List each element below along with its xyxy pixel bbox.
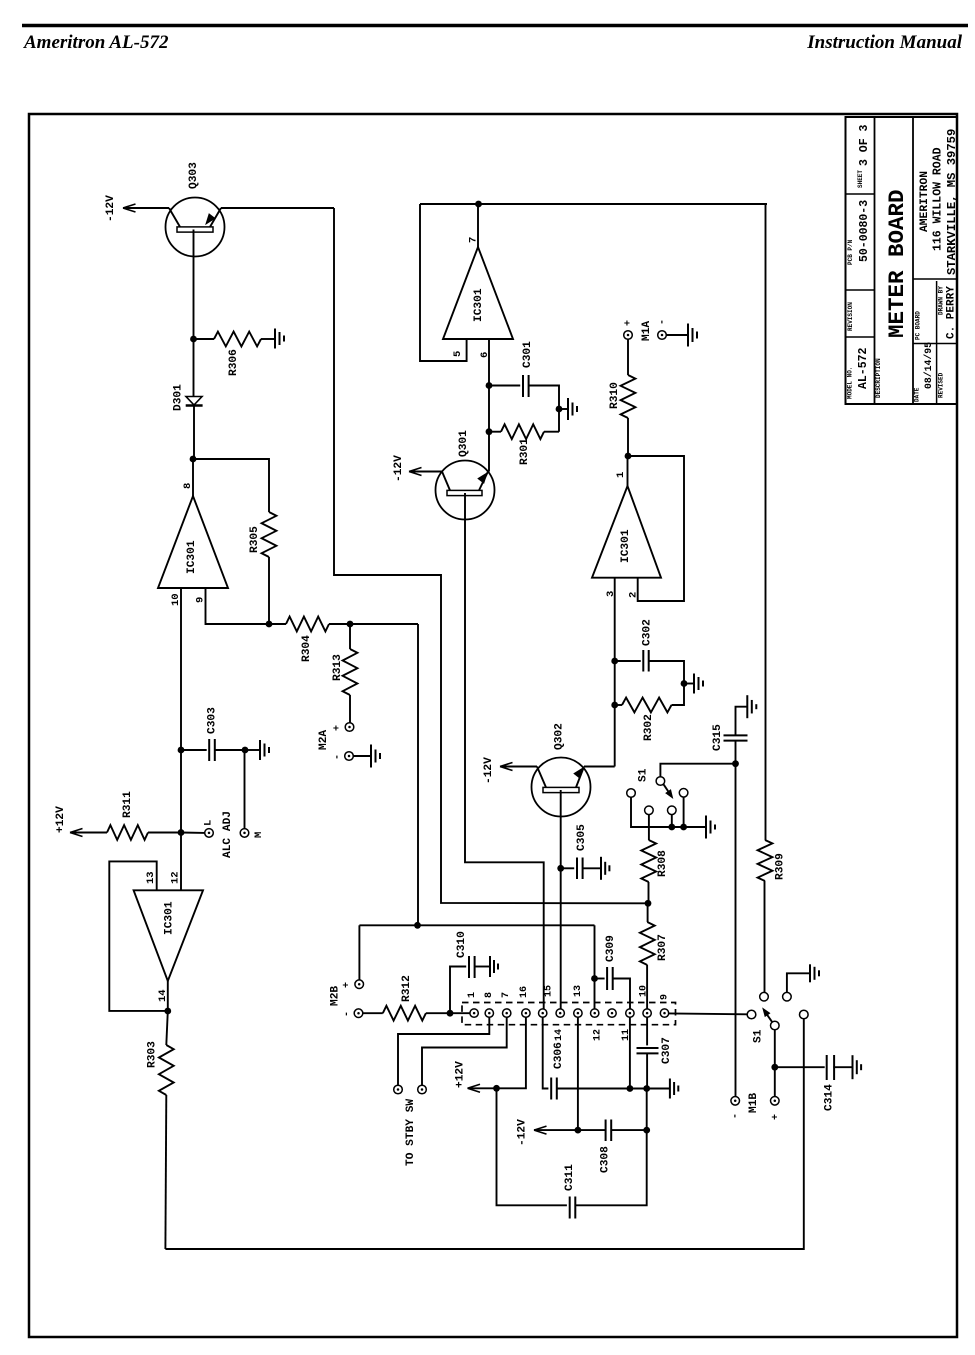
switch S1 top pole bbox=[656, 777, 665, 786]
resistor R306 bbox=[214, 332, 261, 347]
node pin1 junction bbox=[625, 453, 632, 460]
wire S1 throw R down bbox=[165, 1019, 803, 1249]
wire pin8 to SW bbox=[398, 1017, 489, 1085]
svg-text:S1: S1 bbox=[638, 768, 650, 782]
wire R311 to node bbox=[148, 832, 181, 834]
S1 top lever arrow bbox=[664, 784, 672, 795]
wire C303 left bbox=[181, 749, 207, 751]
node rail junction bbox=[414, 922, 421, 929]
wire R301 left bbox=[489, 431, 501, 433]
svg-text:15: 15 bbox=[544, 985, 555, 997]
wire node to L terminal bbox=[181, 832, 205, 834]
wire pin14 stub bbox=[167, 981, 169, 1011]
svg-text:R309: R309 bbox=[775, 853, 787, 880]
resistor R308 bbox=[641, 840, 656, 882]
connector pin circle 2 bbox=[485, 1009, 493, 1017]
svg-text:C314: C314 bbox=[824, 1084, 836, 1111]
svg-text:IC301: IC301 bbox=[620, 529, 632, 563]
terminal M1B minus bbox=[731, 1097, 740, 1106]
svg-text:9: 9 bbox=[194, 597, 206, 603]
capacitor C303 bbox=[208, 739, 210, 761]
wire C311 right bbox=[575, 1130, 646, 1205]
terminal M1A minus bbox=[658, 331, 667, 340]
wire Q302 collector bbox=[584, 766, 615, 768]
wire R313 node right bbox=[350, 623, 418, 625]
capacitor C305 bbox=[576, 858, 578, 880]
wire R302 left bbox=[615, 704, 622, 706]
node R308-R307 junction bbox=[645, 900, 652, 907]
terminal SW B bbox=[418, 1085, 427, 1094]
svg-text:7: 7 bbox=[501, 992, 512, 998]
svg-text:14: 14 bbox=[554, 1029, 565, 1041]
svg-text:AMERITRON: AMERITRON bbox=[919, 171, 931, 232]
wire R309 bottom bbox=[764, 881, 766, 992]
S1 bottom lever arrow bbox=[765, 1011, 773, 1022]
resistor R307 bbox=[640, 922, 655, 965]
wire throw RA stub bbox=[683, 797, 685, 827]
node R305-pin9 junction bbox=[266, 621, 273, 628]
ground C301 bbox=[567, 398, 569, 420]
wire C315 node to M1B bbox=[735, 764, 737, 1096]
svg-text:R301: R301 bbox=[519, 438, 531, 465]
resistor R310 bbox=[621, 375, 636, 418]
svg-text:R308: R308 bbox=[657, 850, 669, 877]
wire C314 to gnd bbox=[833, 1066, 852, 1068]
op-amp IC301 pins 12-13-14 bbox=[134, 890, 203, 981]
wire C310 branch bbox=[450, 967, 466, 1014]
wire pin13 down bbox=[577, 1017, 579, 1130]
terminal M1A plus bbox=[624, 331, 633, 340]
connector pin circle 9 bbox=[608, 1009, 616, 1017]
svg-text:R312: R312 bbox=[401, 975, 413, 1002]
svg-text:08/14/95: 08/14/95 bbox=[923, 342, 934, 389]
svg-text:-12V: -12V bbox=[517, 1119, 529, 1146]
Q303 emitter arrow bbox=[206, 214, 215, 224]
wire op3 feedback bbox=[628, 456, 684, 601]
wire bus to R309 bbox=[765, 204, 767, 840]
svg-text:IC301: IC301 bbox=[473, 288, 485, 322]
wire pin7 stub bbox=[477, 204, 479, 247]
resistor R312 bbox=[383, 1006, 426, 1021]
op-amp IC301 pins 5-6-7 bbox=[443, 247, 513, 339]
svg-text:10: 10 bbox=[170, 593, 182, 606]
wire C308 right bbox=[611, 1129, 647, 1131]
resistor R304 bbox=[286, 617, 329, 632]
wire C302 gnd stem bbox=[684, 683, 694, 685]
switch S1 top throw LA bbox=[627, 789, 636, 798]
svg-text:R311: R311 bbox=[122, 791, 134, 818]
wire +12V down to C311 bbox=[497, 1088, 567, 1205]
wire pin9 bbox=[206, 588, 270, 624]
svg-text:S1: S1 bbox=[753, 1029, 765, 1043]
svg-text:Ameritron AL-572: Ameritron AL-572 bbox=[23, 32, 169, 53]
wire R305 bottom bbox=[268, 557, 270, 624]
ground M2A bbox=[370, 745, 372, 768]
wire R301 right bbox=[544, 431, 559, 433]
node R301 left junction bbox=[486, 428, 493, 435]
terminal SW A bbox=[394, 1085, 403, 1094]
wire -12V to Q302 bbox=[500, 766, 537, 768]
node M1B plus junction bbox=[771, 1064, 778, 1071]
connector pin circle 5 bbox=[539, 1009, 547, 1017]
wire Q303 collector bus bbox=[334, 208, 648, 903]
svg-text:16: 16 bbox=[519, 986, 530, 998]
wire +12V to R311 bbox=[70, 832, 107, 834]
wire pin10 long bbox=[180, 588, 182, 890]
capacitor C314 bbox=[826, 1055, 828, 1080]
svg-text:C315: C315 bbox=[712, 724, 724, 751]
wire C302 left bbox=[615, 660, 641, 662]
transistor Q302 bbox=[532, 758, 591, 817]
wire C311-gnd vertical bbox=[646, 1089, 648, 1131]
transistor Q303 bbox=[166, 198, 225, 257]
capacitor C302 bbox=[642, 650, 644, 672]
op-amp IC301 pins 1-2-3 bbox=[592, 486, 661, 578]
terminal M2A plus bbox=[345, 723, 354, 732]
ground R306 bbox=[274, 329, 276, 349]
resistor R311 bbox=[107, 825, 148, 840]
power +12V arrow bottom bbox=[468, 1084, 481, 1092]
svg-text:R305: R305 bbox=[249, 526, 261, 553]
svg-text:+: + bbox=[771, 1114, 782, 1120]
wire Q303 base down bbox=[193, 230, 195, 340]
svg-text:9: 9 bbox=[660, 994, 671, 1000]
terminal M2B plus bbox=[355, 980, 364, 989]
resistor R303 bbox=[159, 1045, 174, 1095]
capacitor C306 bbox=[550, 1078, 552, 1100]
ground rail symbol bbox=[669, 1079, 671, 1099]
svg-text:M1A: M1A bbox=[641, 321, 653, 341]
wire M1A to R310 bbox=[627, 339, 629, 375]
header rule bbox=[22, 24, 968, 27]
capacitor C308 bbox=[605, 1120, 607, 1142]
svg-text:M1B: M1B bbox=[748, 1093, 760, 1113]
connector dashed outline bbox=[462, 1003, 676, 1025]
wire C310 gnd stem bbox=[475, 966, 490, 968]
wire op1 top rail bbox=[420, 203, 767, 205]
wire R304 to R313 node bbox=[329, 623, 350, 625]
wire R312 to node bbox=[426, 1012, 450, 1014]
svg-text:-: - bbox=[342, 1011, 353, 1017]
wire Q301 base down bbox=[465, 493, 544, 1009]
svg-text:Q303: Q303 bbox=[188, 162, 200, 189]
connector pin circle 7 bbox=[574, 1009, 582, 1017]
switch S1 top throw RB bbox=[668, 806, 677, 815]
svg-text:116 WILLOW ROAD: 116 WILLOW ROAD bbox=[931, 147, 944, 251]
switch S1 bottom throw R bbox=[800, 1010, 809, 1019]
capacitor C310 bbox=[468, 956, 470, 978]
wire pin9 to S1 bbox=[669, 1012, 747, 1015]
wire pin15 to C306 bbox=[543, 1017, 549, 1088]
node C301 ground junction bbox=[556, 406, 563, 413]
svg-text:+12V: +12V bbox=[55, 806, 67, 833]
svg-text:R303: R303 bbox=[147, 1041, 159, 1068]
wire down to M2B rail bbox=[417, 624, 419, 925]
svg-text:C308: C308 bbox=[600, 1146, 612, 1173]
svg-text:C305: C305 bbox=[576, 824, 588, 851]
wire R303 to bottom bus bbox=[164, 1095, 167, 1249]
switch S1 top throw LB bbox=[645, 806, 654, 815]
ground C315 bbox=[746, 695, 748, 718]
switch S1 bottom throw TL bbox=[760, 992, 769, 1001]
Q301 collector arrow bbox=[478, 473, 487, 483]
terminal M1B plus bbox=[771, 1097, 780, 1106]
wire R313 top bbox=[349, 624, 351, 649]
wire pin8 stub bbox=[192, 459, 194, 496]
terminal L bbox=[205, 829, 214, 838]
node +12V junction bbox=[493, 1085, 500, 1092]
wire M2A minus to ground bbox=[353, 755, 371, 757]
connector pin circle 12 bbox=[660, 1009, 668, 1017]
wire to R304 bbox=[269, 623, 286, 625]
svg-text:+12V: +12V bbox=[455, 1061, 467, 1088]
switch S1 top throw RA bbox=[679, 789, 688, 798]
svg-text:Q302: Q302 bbox=[554, 723, 566, 750]
svg-text:R313: R313 bbox=[332, 654, 344, 681]
ground S1 bottom bbox=[809, 964, 811, 982]
wire S1 pole down bbox=[774, 1030, 776, 1097]
svg-text:PCB P/N: PCB P/N bbox=[847, 239, 854, 265]
resistor R305 bbox=[262, 512, 277, 557]
svg-text:C311: C311 bbox=[564, 1164, 576, 1191]
wire to R306 bbox=[194, 338, 215, 340]
wire R308 bottom bbox=[648, 882, 650, 903]
wire ground rail bbox=[557, 1088, 670, 1090]
power -12V arrow Q303 bbox=[123, 204, 136, 212]
svg-text:R304: R304 bbox=[301, 635, 313, 662]
node C309 junction bbox=[591, 975, 598, 982]
wire C315 bottom bbox=[735, 741, 737, 764]
wire R307 top bbox=[647, 903, 649, 922]
resistor R302 bbox=[622, 698, 672, 713]
svg-text:ALC ADJ: ALC ADJ bbox=[222, 811, 234, 858]
title block grid bbox=[846, 117, 958, 404]
wire M1B node to C314 bbox=[775, 1066, 825, 1068]
wire R305 top branch bbox=[193, 459, 269, 512]
node throw RB junction bbox=[668, 824, 675, 831]
svg-text:R310: R310 bbox=[609, 382, 621, 409]
svg-text:STARKVILLE, MS 39759: STARKVILLE, MS 39759 bbox=[945, 129, 959, 275]
node R302 left junction bbox=[611, 702, 618, 709]
svg-text:13: 13 bbox=[145, 871, 157, 884]
wire C315 top to gnd bbox=[736, 707, 748, 736]
power -12V arrow bottom bbox=[534, 1126, 547, 1134]
wire C305 gnd stem bbox=[583, 867, 601, 869]
wire C307 to gnd rail bbox=[646, 1053, 648, 1088]
svg-text:8: 8 bbox=[182, 483, 194, 489]
node pin11 gnd junction bbox=[627, 1085, 634, 1092]
svg-text:Q301: Q301 bbox=[458, 430, 470, 457]
svg-text:M: M bbox=[253, 832, 265, 838]
svg-text:50-0080-3: 50-0080-3 bbox=[858, 200, 871, 262]
svg-text:L: L bbox=[202, 820, 214, 826]
node C302 left junction bbox=[611, 658, 618, 665]
ground C302 bbox=[693, 674, 695, 694]
capacitor C301 bbox=[522, 375, 524, 397]
wire pin3 down bbox=[614, 578, 616, 767]
wire pin16 to +12V bbox=[470, 1017, 526, 1088]
node R311 junction bbox=[178, 829, 185, 836]
wire M2B top rail bbox=[359, 924, 594, 926]
wire R306 junction to D301 bbox=[193, 339, 195, 397]
wire M2B minus to R312 bbox=[363, 1012, 383, 1014]
svg-text:IC301: IC301 bbox=[164, 901, 176, 935]
capacitor C311 bbox=[569, 1197, 571, 1219]
node R304-R313 junction bbox=[347, 621, 354, 628]
svg-text:C301: C301 bbox=[522, 341, 534, 368]
svg-text:C309: C309 bbox=[605, 935, 617, 962]
wire pin7 to SW bbox=[422, 1017, 507, 1085]
wire D301 to pin8 node bbox=[193, 406, 195, 460]
svg-text:M2A: M2A bbox=[318, 730, 330, 750]
node C303 left junction bbox=[178, 747, 185, 754]
wire C309 node to pin12 bbox=[594, 979, 596, 1009]
svg-text:C310: C310 bbox=[456, 931, 468, 958]
wire -12V to Q303 bbox=[123, 207, 169, 209]
connector pin circle 10 bbox=[626, 1009, 634, 1017]
wire C309 right bbox=[613, 979, 630, 1009]
wire R310 to pin1 bbox=[627, 418, 629, 456]
node C305 junction bbox=[557, 865, 564, 872]
power -12V arrow Q302 bbox=[500, 763, 513, 771]
svg-text:5: 5 bbox=[452, 351, 464, 357]
resistor R313 bbox=[343, 649, 358, 695]
node R312 junction bbox=[447, 1010, 454, 1017]
wire C302 right bbox=[649, 661, 684, 684]
node pin13 -12V junction bbox=[575, 1127, 582, 1134]
svg-text:C302: C302 bbox=[642, 619, 654, 646]
wire C303 gnd stem bbox=[245, 749, 260, 751]
svg-text:+: + bbox=[333, 725, 344, 731]
resistor R309 bbox=[758, 840, 773, 881]
ground C310 bbox=[489, 956, 491, 977]
wire R302 right bbox=[672, 684, 685, 706]
svg-text:IC301: IC301 bbox=[186, 540, 198, 574]
wire M2B plus drop bbox=[358, 925, 360, 980]
svg-text:R306: R306 bbox=[228, 349, 240, 376]
ground C305 bbox=[600, 857, 602, 880]
svg-text:1: 1 bbox=[615, 472, 627, 478]
wire pin10 to C307 bbox=[646, 1017, 648, 1045]
svg-text:10: 10 bbox=[639, 985, 650, 997]
svg-text:D301: D301 bbox=[173, 384, 185, 411]
connector pin circle 6 bbox=[556, 1009, 564, 1017]
svg-text:DRAWN BY: DRAWN BY bbox=[938, 286, 945, 315]
wire C301 right bbox=[529, 386, 559, 432]
node throw RA junction bbox=[680, 824, 687, 831]
terminal M bbox=[240, 829, 249, 838]
ground S1 top bbox=[705, 816, 707, 839]
connector pin circle 3 bbox=[503, 1009, 511, 1017]
wire -12V rail left bbox=[534, 1129, 578, 1131]
op-amp IC301 pins 8-9-10 bbox=[158, 496, 228, 588]
svg-text:-12V: -12V bbox=[483, 757, 495, 784]
wire R303 top bbox=[166, 1011, 168, 1045]
ground C303 bbox=[259, 740, 261, 760]
node pin8 junction bbox=[190, 456, 197, 463]
wire C303 right bbox=[215, 749, 245, 751]
svg-text:8: 8 bbox=[484, 992, 495, 998]
capacitor C307 bbox=[637, 1047, 659, 1049]
svg-text:REVISED: REVISED bbox=[938, 372, 945, 398]
connector pin circle 1 bbox=[470, 1009, 478, 1017]
svg-text:C. PERRY: C. PERRY bbox=[945, 286, 957, 339]
switch S1 bottom throw TR bbox=[783, 992, 792, 1001]
svg-text:MODEL NO.: MODEL NO. bbox=[847, 367, 854, 399]
wire throw TR to gnd bbox=[787, 973, 810, 992]
svg-text:Instruction Manual: Instruction Manual bbox=[806, 32, 962, 53]
connector pin circle 4 bbox=[522, 1009, 530, 1017]
svg-text:-: - bbox=[333, 754, 344, 760]
resistor R301 bbox=[501, 424, 544, 439]
wire C305 left bbox=[561, 867, 575, 869]
connector pin circle 11 bbox=[643, 1009, 651, 1017]
wire op1 feedback left bbox=[420, 204, 467, 361]
wire pin11 down bbox=[629, 1017, 631, 1088]
svg-text:+: + bbox=[624, 320, 635, 326]
Q302 collector arrow bbox=[574, 768, 583, 778]
svg-text:-: - bbox=[731, 1113, 742, 1119]
wire throw LA down bbox=[631, 797, 706, 827]
svg-text:R302: R302 bbox=[643, 714, 655, 741]
power -12V arrow Q301 bbox=[409, 468, 422, 476]
svg-text:C303: C303 bbox=[207, 707, 219, 734]
node R306 junction bbox=[190, 336, 197, 343]
svg-text:-12V: -12V bbox=[393, 455, 405, 482]
switch S1 bottom pole L bbox=[747, 1010, 756, 1019]
svg-text:DATE: DATE bbox=[914, 387, 921, 402]
svg-text:C306: C306 bbox=[553, 1042, 565, 1069]
capacitor C315 bbox=[724, 734, 748, 736]
wire node to pin1 bbox=[450, 1012, 470, 1014]
transistor Q301 bbox=[436, 461, 495, 520]
svg-text:C307: C307 bbox=[661, 1037, 673, 1064]
diode D301 bbox=[186, 397, 202, 406]
svg-text:TO STBY SW: TO STBY SW bbox=[405, 1099, 417, 1166]
wire -12V to Q301 bbox=[409, 471, 442, 473]
wire -12V rail to C308 bbox=[578, 1129, 606, 1131]
wire R306 to ground bbox=[261, 338, 275, 340]
wire C303 node to M terminal bbox=[244, 750, 246, 829]
svg-text:12: 12 bbox=[169, 871, 181, 884]
node C307 gnd junction bbox=[643, 1085, 650, 1092]
wire pin1 stub bbox=[627, 456, 629, 486]
node pin7 junction bbox=[475, 201, 482, 208]
svg-text:R307: R307 bbox=[657, 934, 669, 961]
svg-text:1: 1 bbox=[467, 992, 478, 998]
wire op4 feedback bbox=[109, 861, 168, 1011]
wire C301 gnd stem bbox=[559, 408, 568, 410]
terminal M2A minus bbox=[345, 752, 354, 761]
svg-text:M2B: M2B bbox=[330, 986, 342, 1006]
svg-text:-12V: -12V bbox=[105, 195, 117, 222]
node pin14 junction bbox=[164, 1008, 171, 1015]
svg-text:METER BOARD: METER BOARD bbox=[884, 189, 910, 338]
node C303 right junction bbox=[242, 747, 249, 754]
svg-text:-: - bbox=[658, 319, 669, 325]
wire throw RB stub bbox=[671, 815, 673, 827]
wire Q302 base down bbox=[560, 790, 562, 1009]
connector pin circle 8 bbox=[591, 1009, 599, 1017]
wire S1 pole to C315 node bbox=[660, 764, 735, 777]
ground C314 bbox=[852, 1055, 854, 1079]
svg-text:REVISION: REVISION bbox=[847, 302, 854, 331]
wire rail to C309 bbox=[594, 925, 596, 978]
svg-text:AL-572: AL-572 bbox=[857, 347, 870, 389]
svg-text:3 OF 3: 3 OF 3 bbox=[858, 124, 871, 166]
wire throw LB to R308 bbox=[648, 815, 650, 840]
node C315 junction bbox=[732, 760, 739, 767]
